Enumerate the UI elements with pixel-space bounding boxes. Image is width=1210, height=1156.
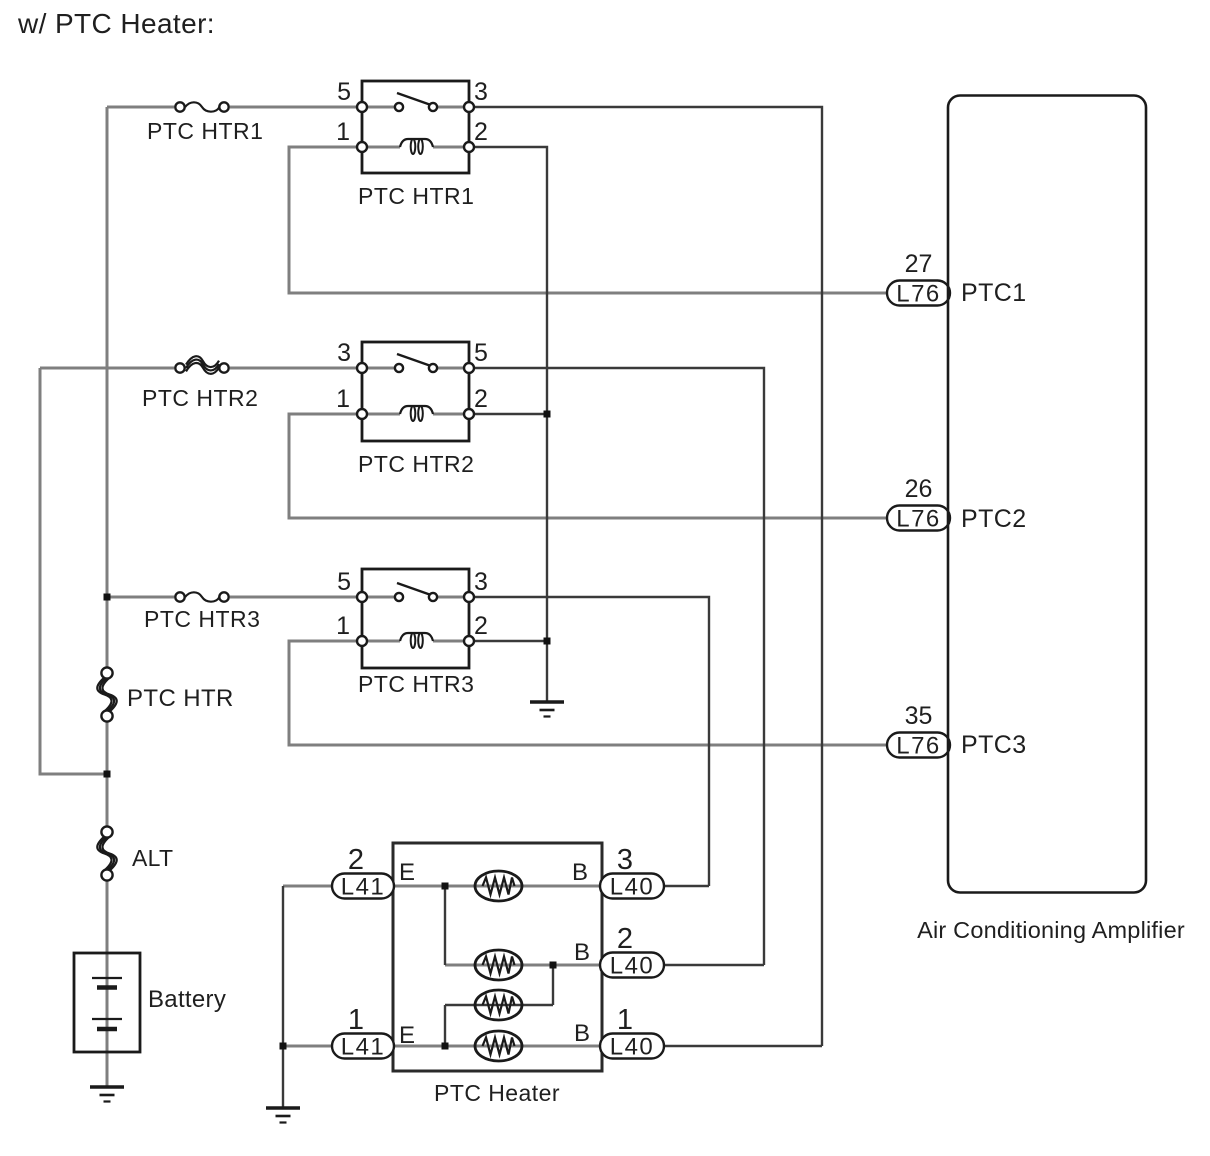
relay PTC HTR2 box [362, 342, 469, 441]
wire: L41 connector stubs and ground riser x=283 [283, 886, 332, 1046]
relay PTC HTR3 switch contacts [395, 593, 403, 601]
relay PTC HTR2 switch contacts [395, 364, 403, 372]
wire: relay coil row interior segments [362, 147, 469, 641]
connector L76 pin 35 (PTC3) [887, 733, 950, 760]
svg-text:2: 2 [474, 612, 488, 640]
svg-text:35: 35 [905, 702, 933, 730]
relay PTC HTR3 terminals [357, 592, 367, 602]
node junction heater row2/row3 tap [550, 962, 557, 969]
svg-text:5: 5 [337, 568, 351, 596]
svg-text:2: 2 [617, 923, 633, 955]
wire: PTC heater row 4 (E to B, y=1046) [394, 1045, 600, 1048]
wire: PTC heater row 3 jumper (y=1005) [445, 1004, 553, 1006]
svg-text:L41: L41 [341, 1034, 386, 1061]
Air Conditioning Amplifier box [948, 96, 1146, 893]
connector L40 pin 3 (B) [600, 874, 664, 901]
node junction coil ground relay3 [544, 638, 551, 645]
relay PTC HTR2 coil [400, 406, 433, 414]
wire: L40 pin1 stub to riser x=822 [664, 1045, 822, 1047]
node junction bus/relay3 feed [104, 594, 111, 601]
connector L76 pin 27 (PTC1) [887, 281, 950, 308]
svg-text:PTC HTR: PTC HTR [127, 685, 234, 712]
svg-text:B: B [572, 859, 588, 886]
connector L41 pin 1 (E) [332, 1034, 394, 1061]
svg-text:3: 3 [474, 78, 488, 106]
node junction L41 ground tap [280, 1043, 287, 1050]
node junction bus/x40 riser [104, 771, 111, 778]
svg-text:5: 5 [337, 78, 351, 106]
svg-text:PTC1: PTC1 [961, 279, 1027, 307]
relay PTC HTR1 switch contacts [395, 103, 403, 111]
wire: heater internal vertical x=553 row2-row3 [552, 965, 554, 1005]
svg-text:B: B [574, 939, 590, 966]
relay PTC HTR1 switch blade [397, 93, 431, 105]
heater element R2 (row 2) [475, 950, 522, 980]
svg-text:1: 1 [617, 1004, 633, 1036]
svg-text:L41: L41 [341, 874, 386, 901]
wire: L40 pin2 stub to riser x=764 [664, 964, 764, 966]
wire: L40 pin3 stub to riser x=709 [664, 885, 709, 887]
svg-text:PTC HTR3: PTC HTR3 [358, 671, 474, 697]
wire: relay3 switch output pin 3 to L40 pin 3 riser x=709 [469, 597, 709, 886]
svg-text:L76: L76 [896, 281, 941, 308]
svg-text:PTC HTR2: PTC HTR2 [358, 451, 474, 477]
wire: main left vertical bus x=107 from relay1 row down to battery [106, 107, 109, 1086]
wire: left riser x=40 for PTC HTR2 circuit joining bus at y=774 [40, 368, 107, 774]
ground PTC heater E [266, 1108, 300, 1123]
connector L41 pin 2 (E) [332, 874, 394, 901]
svg-text:3: 3 [337, 339, 351, 367]
wire: relay2 switch output pin 5 to L40 pin 2 riser x=764 [469, 368, 764, 965]
battery cell plates [92, 977, 122, 979]
wire: heater internal vertical x=445 row1-row2 [444, 886, 446, 965]
wire: heater internal vertical x=445 row3-row4 [444, 1005, 446, 1046]
svg-text:1: 1 [336, 118, 350, 146]
node junction heater row1/row2 tap [442, 883, 449, 890]
wire: relay1 switch output pin 3 to L40 pin 1 riser x=822 [469, 107, 822, 1046]
relay PTC HTR1 terminals [357, 102, 367, 112]
wire: battery positive rail row to relay PTC HTR1 pin 5 (y=107) [107, 106, 469, 109]
svg-text:PTC HTR3: PTC HTR3 [144, 606, 260, 632]
relay PTC HTR3 coil [400, 633, 433, 641]
fusible link ALT [97, 826, 116, 880]
svg-text:PTC HTR2: PTC HTR2 [142, 385, 258, 411]
node junction coil ground relay2 [544, 411, 551, 418]
heater element R4 (row 4) [475, 1031, 522, 1061]
svg-text:2: 2 [474, 385, 488, 413]
wire: relay2 coil loop pin1 to connector L76 pin26 (node PTC2, y=518) [289, 414, 887, 518]
svg-text:2: 2 [348, 844, 364, 876]
svg-text:L76: L76 [896, 506, 941, 533]
node junction heater row3/row4 tap [442, 1043, 449, 1050]
fuse PTC HTR2 (fusible link, braided symbol) [175, 356, 228, 374]
svg-text:E: E [399, 1022, 415, 1049]
relay PTC HTR3 box [362, 569, 469, 668]
ground battery [90, 1087, 124, 1102]
svg-text:26: 26 [905, 475, 933, 503]
relay PTC HTR2 terminals [357, 363, 367, 373]
relay PTC HTR1 box [362, 81, 469, 173]
wire: ground riser x=283 below PTC heater [282, 886, 284, 1107]
connector L76 pin 26 (PTC2) [887, 506, 950, 533]
svg-text:L40: L40 [610, 874, 655, 901]
svg-text:5: 5 [474, 339, 488, 367]
wire: relay PTC HTR3 feed row (y=597) [107, 596, 469, 599]
svg-text:Battery: Battery [148, 986, 226, 1013]
fuse PTC HTR1 [175, 102, 228, 111]
battery box [74, 953, 140, 1052]
svg-text:E: E [399, 859, 415, 886]
ground relay coils [530, 702, 564, 717]
connector L40 pin 2 (B) [600, 953, 664, 980]
svg-text:ALT: ALT [132, 845, 173, 871]
heater element R1 (row 1) [475, 871, 522, 901]
relay PTC HTR2 switch blade [397, 354, 431, 366]
svg-text:1: 1 [348, 1004, 364, 1036]
svg-text:PTC3: PTC3 [961, 731, 1027, 759]
relay PTC HTR1 coil [400, 139, 433, 147]
svg-text:1: 1 [336, 612, 350, 640]
svg-text:PTC HTR1: PTC HTR1 [358, 183, 474, 209]
wire: relay1 coil loop pin1 to connector L76 pin27 (node PTC1, y=293) [289, 147, 887, 293]
svg-text:PTC Heater: PTC Heater [434, 1080, 560, 1106]
svg-text:PTC2: PTC2 [961, 505, 1027, 533]
svg-text:3: 3 [617, 844, 633, 876]
svg-text:27: 27 [905, 250, 933, 278]
wire: relay PTC HTR2 feed row from x=40 riser (y=368) [40, 367, 469, 370]
connector L40 pin 1 (B) [600, 1034, 664, 1061]
wire: relay coil commons pin 2 to ground bus x=547 [469, 147, 547, 701]
svg-text:B: B [574, 1020, 590, 1047]
svg-text:PTC HTR1: PTC HTR1 [147, 118, 263, 144]
svg-text:L40: L40 [610, 1034, 655, 1061]
svg-text:2: 2 [474, 118, 488, 146]
wire: PTC heater row 2 (y=965) [445, 964, 600, 967]
wire: PTC heater row 1 (E to B, y=886) [394, 885, 600, 888]
svg-text:3: 3 [474, 568, 488, 596]
svg-text:w/ PTC Heater:: w/ PTC Heater: [17, 8, 215, 39]
wire: relay3 coil loop pin1 to connector L76 pin35 (node PTC3, y=745) [289, 641, 887, 745]
relay PTC HTR3 switch blade [397, 583, 431, 595]
fusible link PTC HTR [97, 667, 116, 721]
fuse PTC HTR3 [175, 592, 228, 601]
heater element R3 (row 3) [475, 990, 522, 1020]
svg-text:L40: L40 [610, 953, 655, 980]
svg-text:L76: L76 [896, 733, 941, 760]
svg-text:Air Conditioning Amplifier: Air Conditioning Amplifier [917, 917, 1185, 943]
PTC Heater box [393, 843, 602, 1071]
svg-text:1: 1 [336, 385, 350, 413]
